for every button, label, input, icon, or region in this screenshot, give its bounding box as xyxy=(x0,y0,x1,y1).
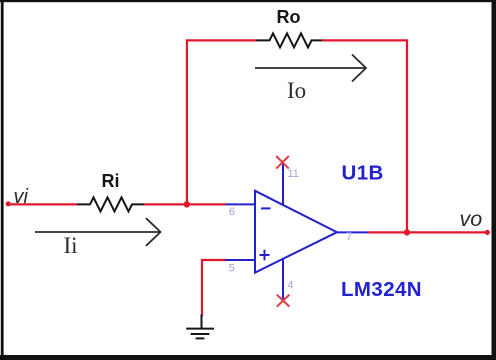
svg-text:U1B: U1B xyxy=(342,162,384,185)
svg-text:Ri: Ri xyxy=(102,171,120,191)
svg-text:7: 7 xyxy=(346,231,352,243)
svg-text:Ii: Ii xyxy=(64,233,78,258)
svg-text:Ro: Ro xyxy=(277,7,301,27)
svg-text:vo: vo xyxy=(460,207,483,231)
svg-text:11: 11 xyxy=(288,168,299,180)
svg-text:LM324N: LM324N xyxy=(341,278,422,301)
svg-text:vi: vi xyxy=(14,186,29,208)
svg-text:4: 4 xyxy=(287,280,293,292)
svg-text:Io: Io xyxy=(287,78,306,103)
svg-text:5: 5 xyxy=(229,263,235,275)
svg-text:6: 6 xyxy=(229,206,235,218)
